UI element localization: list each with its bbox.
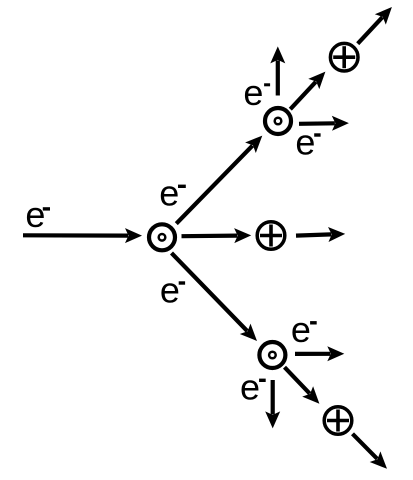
wire: electron arrow A3 toward ion P3 <box>285 367 320 404</box>
wire: ion P2 recoil arrow to top-right corner <box>358 7 392 44</box>
wire: electron arrow A1 toward ion P1 <box>182 228 252 243</box>
wire: electron arrow A2 toward ion P2 <box>290 72 325 110</box>
label e- upper branch at A1 <box>159 173 186 214</box>
wire: electron arrow up from atom A2 <box>270 46 285 95</box>
svg-text:e: e <box>295 121 315 162</box>
svg-text:e: e <box>25 194 45 235</box>
svg-text:e: e <box>160 269 180 310</box>
node A1: central gas atom (neutral atom) <box>149 224 175 250</box>
wire: scattered electron arrow A1 to atom A2 <box>176 136 262 224</box>
svg-text:e: e <box>291 309 311 350</box>
label e- up arrow at A2 <box>243 72 270 113</box>
wire: electron arrow right from atom A2 <box>299 116 349 131</box>
svg-text:e: e <box>240 366 260 407</box>
label e- right arrow at A2 <box>295 121 320 162</box>
wire: primary electron arrow into atom A1 <box>23 228 142 243</box>
wire: ion P1 recoil arrow to the right <box>296 227 345 242</box>
svg-text:e: e <box>243 72 263 113</box>
svg-text:e: e <box>159 173 179 214</box>
node P2: top positive ion (positive ion) <box>330 43 358 71</box>
wire: ion P3 recoil arrow to bottom-right corner <box>353 434 388 469</box>
label e- lower branch at A1 <box>160 269 185 310</box>
node A3: lower gas atom (neutral atom) <box>259 342 285 368</box>
label e- down arrow at A3 <box>240 366 266 407</box>
node P3: bottom positive ion (positive ion) <box>324 407 352 435</box>
label e- right arrow at A3 <box>291 309 317 350</box>
node P1: middle positive ion (positive ion) <box>257 222 285 250</box>
wire: scattered electron arrow A1 to atom A3 <box>172 253 258 341</box>
node A2: upper gas atom (neutral atom) <box>265 108 291 134</box>
wire: electron arrow down from atom A3 <box>265 380 280 428</box>
label e- primary electron <box>25 194 50 235</box>
wire: electron arrow right from atom A3 <box>295 346 344 361</box>
